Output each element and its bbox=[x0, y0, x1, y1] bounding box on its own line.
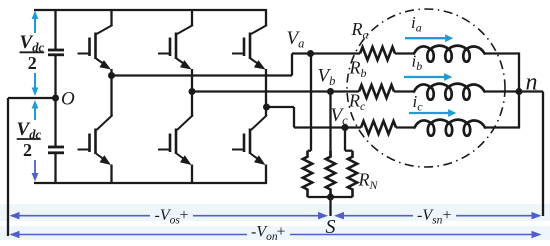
svg-text:+: + bbox=[443, 207, 452, 224]
svg-text:+: + bbox=[180, 207, 189, 224]
svg-text:2: 2 bbox=[28, 53, 37, 73]
svg-text:n: n bbox=[526, 70, 538, 96]
svg-text:O: O bbox=[61, 89, 75, 110]
svg-text:2: 2 bbox=[23, 140, 32, 160]
svg-text:+: + bbox=[277, 224, 286, 241]
svg-text:S: S bbox=[326, 216, 336, 238]
